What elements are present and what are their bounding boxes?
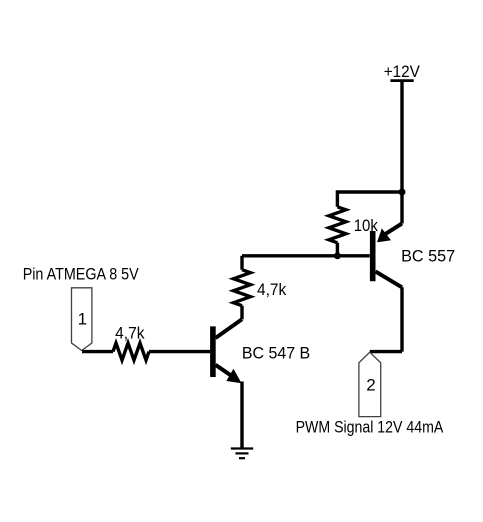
connector pin 2 <box>359 352 381 416</box>
node B junction dot <box>334 252 341 259</box>
label 10k <box>354 216 379 235</box>
wire pin 1 to resistor 4,7k <box>82 350 113 353</box>
resistor 4,7k (base, horizontal) <box>113 343 149 360</box>
svg-text:Pin ATMEGA 8 5V: Pin ATMEGA 8 5V <box>23 265 140 284</box>
wire Q2 collector down <box>400 287 403 351</box>
node A junction dot <box>399 189 406 196</box>
resistor 4,7k (collector, vertical) <box>234 270 251 306</box>
svg-text:4,7k: 4,7k <box>257 280 287 299</box>
svg-text:+12V: +12V <box>384 62 421 81</box>
label BC 557 <box>401 247 455 266</box>
wire node A to Q2 emitter <box>400 192 403 224</box>
wire resistor 10k bottom to node B <box>336 243 339 256</box>
label pin 1 <box>78 310 87 329</box>
label Pin ATMEGA 8 5V <box>23 265 140 284</box>
svg-text:PWM Signal 12V 44mA: PWM Signal 12V 44mA <box>296 418 444 437</box>
label 4,7k (base resistor) <box>115 324 145 343</box>
svg-text:2: 2 <box>366 376 375 395</box>
svg-text:BC 547 B: BC 547 B <box>242 344 310 363</box>
svg-text:BC 557: BC 557 <box>401 247 455 266</box>
svg-text:1: 1 <box>78 310 87 329</box>
wire node A to resistor 10k top <box>337 192 402 207</box>
wire +12V to node A <box>400 81 403 192</box>
wire resistor 4,7k to Q1 base <box>149 350 210 353</box>
label BC 547 B <box>242 344 310 363</box>
wire Q1 collector to resistor 4,7k (vertical) <box>240 306 243 320</box>
wire Q1 emitter to ground <box>240 382 243 448</box>
ground <box>231 449 253 459</box>
label pin 2 <box>366 376 375 395</box>
transistor Q2 BC 557 (PNP) <box>373 224 402 288</box>
power +12V rail bar <box>390 79 413 82</box>
resistor 10k <box>329 207 346 243</box>
power +12V label <box>384 62 421 81</box>
wire to connector 2 <box>370 350 402 353</box>
connector pin 1 <box>72 288 92 351</box>
label PWM Signal 12V 44mA <box>296 418 444 437</box>
wire resistor 4,7k top to node B wire <box>240 256 243 270</box>
transistor Q1 BC 547 B (NPN) <box>213 319 242 383</box>
wire base of Q2 (node B horizontal) <box>242 254 370 257</box>
label 4,7k (collector resistor) <box>257 280 287 299</box>
svg-text:4,7k: 4,7k <box>115 324 145 343</box>
